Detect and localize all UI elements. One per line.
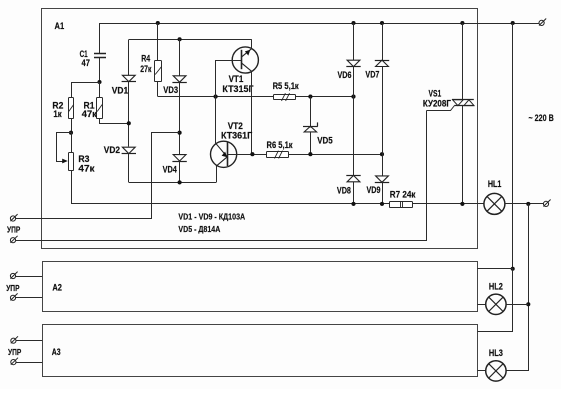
svg-text:VD1: VD1 [112, 86, 128, 96]
wire R2-R3 link [71, 133, 73, 152]
wire VD3-VD4 link [179, 82, 181, 154]
node UPR tap on VD3-VD4 [178, 131, 182, 135]
svg-text:47к: 47к [82, 109, 98, 119]
terminal UPR1 b [10, 236, 17, 243]
label C1 value [80, 49, 90, 68]
wire to R2 top [72, 83, 100, 98]
svg-text:R7 24к: R7 24к [390, 190, 416, 200]
label VD8 [337, 185, 351, 195]
wire C1 bottom lead [99, 58, 101, 82]
svg-text:VD1 - VD9 - КД103А: VD1 - VD9 - КД103А [178, 211, 245, 221]
label VT2 KT361G [221, 121, 252, 141]
wire VD8 bottom lead [353, 182, 355, 204]
svg-text:47к: 47к [78, 163, 95, 173]
wire VT1 collector down to VT2 base node [251, 71, 253, 154]
svg-text:47: 47 [82, 58, 90, 68]
wire VS1 gate [427, 106, 455, 111]
wire R4 top lead [157, 23, 159, 61]
label VT1 KT315G [222, 74, 253, 94]
svg-text:1к: 1к [53, 109, 62, 119]
wire VD4 bottom lead [179, 161, 181, 182]
svg-text:VD5 - Д814А: VD5 - Д814А [178, 224, 220, 234]
node A2-A3 feed junction [511, 21, 515, 25]
terminal UPR3 a [11, 336, 18, 343]
label R5 5,1k [273, 81, 300, 91]
diode VD1 [122, 75, 136, 81]
wire UPR1 vertical riser [16, 133, 180, 219]
arrow R3 wiper [62, 159, 68, 164]
wire lamp common down [506, 204, 529, 371]
wire VD1-VD2 link [128, 82, 130, 147]
label HL1 [488, 179, 502, 189]
diode VD6 [346, 60, 360, 66]
svg-text:VD9: VD9 [367, 185, 381, 195]
wire VD5 bottom lead [310, 132, 312, 154]
label VD6 [338, 70, 352, 80]
wire UPR2 a [16, 276, 42, 278]
resistor R5 [274, 93, 296, 101]
svg-text:VT2: VT2 [228, 121, 243, 131]
label VD9 [367, 185, 381, 195]
label VD2 [104, 145, 120, 155]
wire R4 bottom lead [157, 82, 159, 97]
label UPR A2 [6, 283, 20, 293]
terminal ~220V bottom [543, 200, 550, 207]
zener diode VD5 [303, 122, 318, 131]
diode VD7 [375, 60, 389, 66]
node VD8 bottom junction [351, 202, 355, 206]
svg-text:VD2: VD2 [104, 145, 120, 155]
node VD4 bottom junction [178, 180, 182, 184]
wire feed to A2 [477, 268, 512, 270]
node R4 top junction [156, 21, 160, 25]
svg-text:УПР: УПР [7, 225, 21, 235]
module box A1 [42, 9, 478, 249]
resistor R2 [69, 98, 74, 119]
label ~220V [529, 113, 555, 123]
terminal UPR2 a [10, 272, 17, 279]
diode VD9 [375, 176, 389, 183]
node VD9 bottom junction [380, 202, 384, 206]
label diode types legend line 1 [178, 211, 245, 221]
label R3 47k [78, 154, 95, 173]
wire R3 bottom to bottom rail [71, 171, 73, 204]
svg-text:A1: A1 [55, 21, 65, 31]
wire R2 bottom [71, 119, 73, 133]
wire VT2 emitter up [215, 97, 217, 144]
wire VT1 base down [215, 60, 217, 97]
svg-text:R4: R4 [141, 54, 150, 64]
wire HL1 to terminal [505, 203, 544, 205]
wire UPR2 b [16, 297, 42, 299]
wire UPR3 a [16, 340, 42, 342]
wire VD7-VD9 link [382, 67, 384, 176]
label UPR A1 [7, 225, 21, 235]
svg-text:VT1: VT1 [229, 74, 244, 84]
node lamp common junction [526, 202, 530, 206]
svg-text:VD5: VD5 [317, 136, 333, 146]
resistor R4 [155, 61, 162, 82]
wire UPR1 b to VS1 gate [16, 111, 427, 241]
svg-text:A3: A3 [52, 347, 61, 357]
wire VD5 top lead [310, 97, 312, 127]
label R6 5,1k [267, 140, 294, 150]
label UPR A3 [8, 347, 22, 357]
svg-text:КТ361Г: КТ361Г [221, 131, 252, 141]
wire C1 top lead [99, 23, 101, 53]
capacitor C1 [94, 54, 106, 58]
label A3 [52, 347, 61, 357]
wire VD1 top lead [128, 40, 130, 76]
wire VT2 base to R6 [252, 154, 266, 156]
node VD5 top junction [308, 95, 312, 99]
label diode types legend line 2 [178, 224, 220, 234]
label VD5 [317, 136, 333, 146]
node R1 tap on VD1-VD2 [127, 121, 131, 125]
label R1 47k [82, 100, 98, 118]
node R2-R3-wiper [69, 131, 73, 135]
module box A2 [43, 262, 478, 312]
diode VD4 [172, 155, 186, 162]
svg-text:~ 220 В: ~ 220 В [529, 113, 555, 123]
wire VT1 emitter up to collector rail [251, 39, 253, 48]
svg-text:УПР: УПР [6, 283, 20, 293]
wire A2 to HL2 [477, 304, 486, 306]
wire R1 bottom to VD1-VD2 node [100, 119, 129, 124]
lamp HL3 [486, 361, 506, 381]
wire VT2 collector down [216, 166, 218, 182]
wire R6 to VD7-VD9 column [289, 154, 382, 156]
node VD5 bottom junction [308, 152, 312, 156]
svg-text:VS1: VS1 [429, 89, 442, 99]
wire feed down to A3 [478, 269, 513, 332]
transistor VT1 [216, 47, 259, 73]
node VT1 base - VT2 emitter junction [214, 95, 218, 99]
wire VD7 top lead [382, 23, 384, 60]
diode VD3 [172, 76, 186, 83]
wire VD2 bottom [128, 154, 130, 183]
label HL3 [489, 348, 503, 358]
wire VS1 top lead [462, 23, 464, 100]
label A2 [52, 282, 62, 292]
label R4 27k [140, 54, 151, 74]
label VD7 [365, 69, 379, 79]
resistor R6 [267, 151, 289, 159]
label R7 24k [390, 190, 416, 200]
node VS1 top junction [460, 21, 464, 25]
svg-text:КУ208Г: КУ208Г [423, 98, 451, 108]
label VD4 [163, 165, 177, 175]
wire lamp rail mid section [413, 203, 484, 205]
wire HL2 to common [506, 304, 528, 306]
label A1 [55, 21, 65, 31]
svg-text:VD3: VD3 [163, 85, 178, 95]
wire UPR3 b [16, 362, 42, 364]
module box A3 [43, 325, 478, 377]
transistor VT2 [211, 141, 253, 167]
node VT1-VT2-R6 [250, 152, 254, 156]
terminal UPR3 b [11, 358, 18, 365]
svg-text:HL1: HL1 [488, 179, 502, 189]
svg-text:HL2: HL2 [489, 282, 503, 292]
wire VD9 bottom lead [382, 182, 384, 204]
svg-text:A2: A2 [52, 282, 62, 292]
label HL2 [489, 282, 503, 292]
wire R4 to R5 base rail [158, 96, 354, 98]
label R2 1k [52, 100, 63, 118]
node base rail to VD6-VD8 junction [351, 95, 355, 99]
resistor R7 [390, 201, 413, 207]
wire VD6 top lead [353, 23, 355, 60]
svg-text:КТ315Г: КТ315Г [222, 84, 253, 94]
resistor R3 variable [69, 153, 74, 171]
label VS1 KU208G [423, 89, 451, 109]
wire R3 wiper link [57, 133, 72, 162]
svg-text:VD4: VD4 [163, 165, 177, 175]
svg-text:27к: 27к [140, 64, 151, 74]
node VD7 top junction [380, 21, 384, 25]
lamp HL2 [486, 294, 506, 314]
terminal UPR2 b [10, 293, 17, 300]
node HL2 junction [526, 302, 530, 306]
wire A3 to HL3 [478, 370, 486, 372]
node VS1 bottom junction [460, 202, 464, 206]
resistor R1 [97, 98, 103, 119]
node VD3 top junction [178, 37, 182, 41]
svg-text:VD6: VD6 [338, 70, 352, 80]
terminal UPR1 a [10, 214, 17, 221]
triac VS1 [452, 100, 474, 106]
diode VD8 [346, 175, 360, 181]
wire VD6-VD8 link [353, 67, 355, 176]
wire VD3 top lead [179, 39, 181, 76]
svg-text:УПР: УПР [8, 347, 22, 357]
wire VS1 bottom lead [462, 106, 464, 204]
wire VD1-VD3-VT1 collector rail [129, 39, 252, 41]
node C1-R1-R2 [97, 80, 101, 84]
wire VD2-VD4-VT2 bottom rail [129, 182, 216, 184]
node VD6 top junction [351, 21, 355, 25]
terminal ~220V top [539, 19, 546, 26]
svg-text:R6 5,1к: R6 5,1к [267, 140, 294, 150]
svg-text:HL3: HL3 [489, 348, 503, 358]
label VD3 [163, 85, 178, 95]
wire top 220V rail [99, 23, 539, 25]
svg-text:VD7: VD7 [365, 69, 379, 79]
node A2 feed junction [511, 267, 515, 271]
svg-text:VD8: VD8 [337, 185, 351, 195]
wire R1 top lead [99, 82, 101, 97]
svg-text:R5 5,1к: R5 5,1к [273, 81, 300, 91]
node R6 rail to VD7-VD9 junction [380, 152, 384, 156]
label VD1 [112, 86, 128, 96]
wire lamp rail left section [71, 203, 390, 205]
lamp HL1 [484, 193, 505, 214]
diode VD2 [122, 147, 136, 153]
wire phase feed down to A2 A3 [512, 23, 514, 269]
